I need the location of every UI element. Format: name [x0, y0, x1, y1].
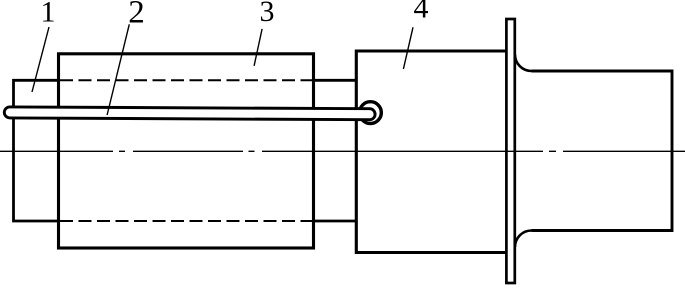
svg-text:3: 3 [260, 0, 275, 28]
leader line 1 [32, 27, 49, 92]
pin (part 2) bar [4, 107, 375, 120]
hidden shaft outline (dashed) inside sleeve, bottom [60, 220, 312, 222]
leader line 3 [254, 29, 262, 66]
hub (part 4) outline [356, 51, 507, 253]
flange strip [506, 19, 514, 283]
fillet top [515, 55, 532, 72]
pin head circle [360, 102, 382, 124]
hidden shaft outline (dashed) inside sleeve, top [60, 79, 312, 81]
shaft left section (part 1) [14, 80, 59, 221]
leader line 2 [107, 24, 129, 115]
sleeve (part 3) rectangle [59, 54, 314, 248]
leader line 4 [403, 27, 413, 69]
svg-text:1: 1 [41, 0, 56, 29]
right shaft end [532, 71, 673, 231]
svg-text:4: 4 [414, 0, 429, 25]
centerline (shaft axis) [0, 150, 685, 152]
visible shaft between sleeve and hub, top [314, 79, 357, 82]
svg-text:2: 2 [128, 0, 145, 30]
visible shaft between sleeve and hub, bottom [314, 220, 357, 223]
fillet bottom [515, 231, 532, 248]
